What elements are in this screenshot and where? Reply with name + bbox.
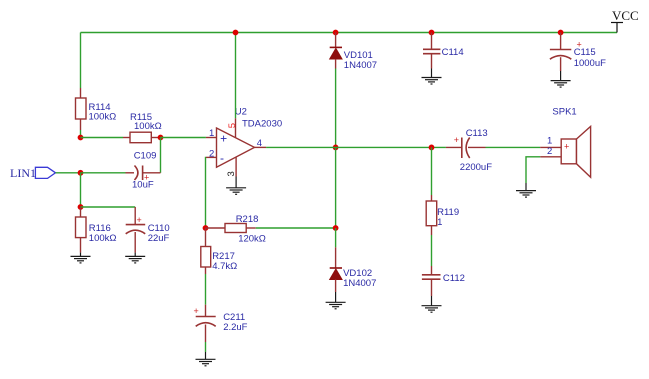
svg-text:VCC: VCC: [612, 8, 639, 23]
svg-text:1: 1: [437, 217, 442, 228]
ground under R116: [71, 253, 91, 263]
ground under speaker: [516, 183, 536, 197]
wire node B to op-amp pin 1: [161, 137, 206, 139]
svg-text:2: 2: [547, 146, 552, 157]
svg-text:LIN1: LIN1: [10, 166, 36, 180]
node B junction: [158, 135, 164, 141]
resistor R218: [206, 214, 266, 245]
wire node F to VD102: [335, 228, 337, 247]
svg-text:1: 1: [547, 135, 552, 146]
ground under C115: [551, 71, 571, 87]
capacitor C110: [126, 207, 170, 253]
svg-text:+: +: [137, 215, 142, 225]
wire VD101 to node H: [335, 69, 337, 148]
svg-text:C113: C113: [466, 128, 488, 139]
node D junction: [78, 204, 84, 210]
svg-text:C112: C112: [443, 273, 465, 284]
wire node J down to R119: [431, 147, 433, 195]
wire speaker pin 2 to ground: [526, 157, 540, 183]
svg-text:100kΩ: 100kΩ: [89, 233, 117, 244]
svg-text:SPK1: SPK1: [552, 107, 576, 118]
ground under C110: [125, 253, 145, 263]
speaker SPK1: [540, 107, 590, 178]
wire node C down to node D: [80, 173, 82, 207]
diode VD102 1N4007: [330, 247, 377, 292]
wire C113 to speaker pin 1: [486, 146, 541, 148]
resistor R114: [76, 88, 117, 130]
node C junction: [78, 170, 84, 176]
svg-text:4: 4: [257, 138, 262, 149]
svg-text:10uF: 10uF: [132, 179, 154, 190]
svg-text:2: 2: [209, 148, 214, 159]
wire op-amp pin2 down to node E: [205, 157, 207, 228]
svg-text:4.7kΩ: 4.7kΩ: [212, 261, 237, 272]
capacitor C114: [423, 33, 464, 69]
svg-text:TDA2030: TDA2030: [242, 119, 282, 130]
node G junction (rail / VD101): [333, 30, 339, 36]
ground op-amp pin 3: [226, 177, 246, 195]
wire LIN1 to node C: [56, 172, 81, 174]
wire output row op-amp to C113: [266, 146, 446, 148]
ground under C211: [196, 352, 216, 366]
capacitor C112: [422, 266, 465, 296]
svg-text:120kΩ: 120kΩ: [238, 234, 266, 245]
svg-text:+: +: [220, 132, 227, 146]
svg-text:1: 1: [209, 128, 214, 139]
svg-text:C109: C109: [134, 151, 157, 162]
svg-text:C114: C114: [442, 47, 464, 58]
svg-text:100kΩ: 100kΩ: [134, 121, 162, 132]
svg-text:-: -: [220, 151, 224, 165]
diode VD101 1N4007: [330, 33, 377, 72]
capacitor C211: [194, 305, 248, 342]
node E junction: [203, 225, 209, 231]
wire R217 to C211: [205, 274, 207, 305]
svg-text:22uF: 22uF: [148, 233, 170, 244]
resistor R119: [426, 195, 459, 235]
wire top power rail: [81, 32, 618, 34]
node rail-pin5 junction: [233, 30, 239, 36]
node K junction (rail / C115): [558, 30, 564, 36]
node I junction (rail / C114): [429, 30, 435, 36]
resistor R115: [123, 112, 162, 143]
svg-text:100kΩ: 100kΩ: [89, 112, 117, 123]
svg-text:+: +: [564, 142, 569, 152]
wire R119 to C112: [431, 235, 433, 266]
capacitor C109: [126, 151, 161, 191]
svg-text:C115: C115: [574, 47, 596, 58]
node A junction: [78, 135, 84, 141]
wire node B down to C109: [160, 138, 162, 173]
wire node H down to node F: [335, 147, 337, 228]
wire left rail vertical to R114: [80, 33, 82, 89]
svg-text:+: +: [194, 306, 199, 316]
svg-text:3: 3: [226, 171, 237, 176]
wire node C to C109: [81, 172, 126, 174]
capacitor C113: [446, 128, 492, 173]
node J junction (output row / R119): [429, 145, 435, 151]
wire R114 to node A: [80, 130, 82, 138]
svg-text:2.2uF: 2.2uF: [223, 322, 247, 333]
wire node D to C110: [81, 206, 136, 208]
ground under VD102: [326, 292, 346, 309]
ground under C112: [422, 296, 442, 312]
ground under C114: [422, 69, 442, 85]
svg-text:5: 5: [227, 123, 238, 128]
svg-text:U2: U2: [235, 107, 247, 118]
resistor R217: [201, 228, 237, 274]
node F junction: [333, 225, 339, 231]
svg-text:+: +: [454, 135, 459, 145]
svg-text:2200uF: 2200uF: [460, 162, 492, 173]
svg-text:1000uF: 1000uF: [574, 58, 606, 69]
power port VCC: [611, 8, 639, 33]
svg-text:1N4007: 1N4007: [344, 60, 377, 71]
wire op-amp pin5 to top rail: [235, 33, 237, 119]
wire node A to R115: [81, 137, 124, 139]
node H junction (output row): [333, 145, 339, 151]
wire R218 to node F: [256, 227, 336, 229]
port LIN1: [10, 166, 56, 180]
capacitor C115: [550, 33, 606, 72]
resistor R116: [76, 207, 117, 253]
op-amp U1 TDA2030: [206, 107, 282, 177]
svg-text:R218: R218: [236, 214, 259, 225]
svg-text:1N4007: 1N4007: [343, 278, 376, 289]
wire C211 to ground: [205, 342, 207, 352]
